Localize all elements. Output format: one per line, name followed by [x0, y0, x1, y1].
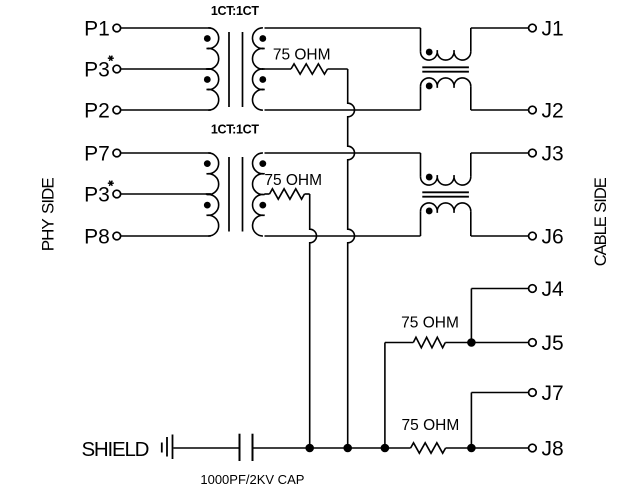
svg-text:75 OHM: 75 OHM: [401, 315, 459, 332]
svg-text:1CT:1CT: 1CT:1CT: [211, 123, 260, 137]
svg-text:P8: P8: [84, 225, 110, 248]
svg-text:J5: J5: [542, 332, 564, 355]
svg-text:P3: P3: [84, 183, 110, 206]
svg-text:J2: J2: [542, 99, 564, 122]
svg-text:J8: J8: [542, 437, 564, 460]
svg-text:75 OHM: 75 OHM: [264, 172, 322, 189]
svg-text:J6: J6: [542, 225, 564, 248]
svg-text:75 OHM: 75 OHM: [402, 417, 460, 434]
svg-text:J7: J7: [542, 382, 564, 405]
svg-text:J4: J4: [542, 278, 565, 301]
svg-text:SHIELD: SHIELD: [81, 438, 148, 461]
svg-text:J1: J1: [542, 17, 564, 40]
svg-text:75 OHM: 75 OHM: [273, 47, 331, 64]
svg-text:P2: P2: [84, 99, 110, 122]
svg-text:1000PF/2KV CAP: 1000PF/2KV CAP: [200, 472, 304, 487]
svg-text:PHY: PHY: [38, 219, 57, 252]
svg-text:P7: P7: [84, 142, 110, 165]
svg-text:P1: P1: [84, 17, 110, 40]
svg-text:SIDE: SIDE: [38, 178, 57, 214]
svg-text:1CT:1CT: 1CT:1CT: [211, 4, 260, 18]
svg-text:SIDE: SIDE: [592, 177, 610, 213]
svg-text:J3: J3: [542, 142, 564, 165]
svg-text:CABLE: CABLE: [592, 216, 610, 266]
svg-text:P3: P3: [84, 58, 110, 81]
